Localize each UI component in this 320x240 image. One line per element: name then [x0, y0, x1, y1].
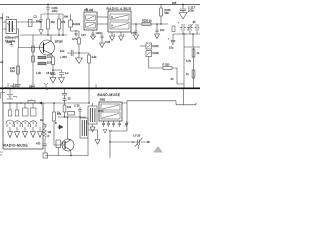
- wire col x18: [17, 48, 19, 85]
- capacitor C6 with ground: [100, 32, 105, 48]
- diode D1: [69, 20, 73, 27]
- resistor R16 zigzag: [44, 128, 47, 144]
- wire AGC long drop: [79, 53, 89, 55]
- wire U2 output bus: [131, 23, 168, 25]
- wire tuning bus y142: [110, 141, 150, 143]
- pointer arrow decoration: [153, 146, 163, 153]
- wire Q2 collector: [67, 117, 69, 139]
- resistor R11 on rail: [160, 5, 162, 9]
- node J13: [9, 102, 11, 104]
- wire base bus: [20, 34, 67, 36]
- wire col x64.5 from rail: [64, 89, 66, 93]
- wire col x193.5 down: [193, 47, 195, 89]
- wire branch to C32: [53, 70, 62, 72]
- node J24: [40, 21, 42, 23]
- tuner column 3: [22, 103, 30, 138]
- capacitor C4: [75, 30, 78, 37]
- node J17: [79, 116, 81, 118]
- node J1 on rail: [47, 4, 49, 6]
- resistor R13: [192, 49, 195, 57]
- capacitor C5 with ground: [91, 30, 96, 40]
- tuner column 4: [30, 103, 38, 138]
- transformer T1 (IF can): [3, 20, 17, 34]
- wire D1 to col: [71, 27, 80, 38]
- capacitor C20 below U3: [112, 121, 115, 127]
- trimmer capacitor C21: [135, 138, 143, 148]
- capacitor C23 below U3: [118, 121, 121, 127]
- IC switch box U1: [84, 12, 97, 30]
- arrow AGC pointer: [39, 30, 43, 35]
- wire R15 to col: [172, 68, 184, 84]
- wire lower bus y103: [3, 102, 89, 104]
- resistor R7: [52, 57, 55, 65]
- capacitor C7 with ground: [134, 24, 139, 40]
- mark M2 bottom left: [0, 152, 3, 155]
- node J10: [183, 33, 185, 35]
- capacitor C32: [59, 73, 64, 78]
- node J6: [135, 23, 137, 25]
- connector Y1 above rail: [44, 83, 48, 89]
- wire T3 top stub: [83, 117, 85, 118]
- capacitor C35: [63, 99, 67, 103]
- connector arrow A1: [38, 102, 42, 105]
- trimmer capacitor C12: [187, 24, 194, 32]
- node J14: [20, 102, 22, 104]
- capacitor C1: [40, 14, 43, 30]
- node J9 rail: [182, 4, 184, 6]
- resistor R18 on col x64.5: [64, 103, 66, 105]
- wire band loop outer: [122, 89, 196, 131]
- capacitor C34: [62, 93, 67, 98]
- wire T3 tap: [88, 130, 98, 140]
- wire T2 top stub: [92, 103, 94, 106]
- capacitor C30 electrolytic to rail: [16, 84, 21, 89]
- bracket mark: [7, 83, 9, 88]
- node J19: [70, 155, 72, 157]
- capacitor C19 below U3: [107, 121, 110, 127]
- tuner column 2: [14, 103, 22, 138]
- wire C21 stub: [138, 145, 140, 149]
- resistor R5: [32, 56, 35, 62]
- wire U1 to U2 pin1: [97, 16, 108, 18]
- ground G3 below U2: [110, 32, 115, 41]
- wire R1 bottom: [48, 14, 63, 35]
- resistor R17 on col x54: [53, 103, 55, 112]
- wire left border bus: [2, 13, 4, 103]
- wire T3 bottom to emitter bus: [87, 138, 89, 156]
- component K4: [56, 140, 61, 148]
- resistor R9: [88, 55, 91, 63]
- resistor R3: [17, 66, 20, 74]
- node J12: [46, 88, 48, 90]
- wire col x45: [43, 124, 45, 128]
- ground G2: [76, 53, 83, 64]
- switch box U3 BAND-MUSE: [99, 102, 122, 121]
- resistor R1: [47, 19, 50, 29]
- inductor L2: [38, 62, 46, 65]
- node J18: [67, 116, 69, 118]
- box RADIO-MUSE: [3, 103, 43, 149]
- diode D4: [57, 125, 63, 129]
- capacitor C31 to rail: [31, 85, 35, 89]
- node J5: [78, 52, 80, 54]
- svg-text:RADIO-MUSE: RADIO-MUSE: [4, 144, 29, 148]
- capacitor C14 on rail: [10, 84, 18, 90]
- ground G10: [59, 78, 65, 84]
- capacitor C22 below rail left: [7, 89, 16, 99]
- node J23: [52, 69, 54, 71]
- diode D3: [146, 51, 152, 57]
- ground G8: [103, 130, 107, 134]
- svg-text:BAND-MUSE: BAND-MUSE: [98, 93, 121, 97]
- node J4: [62, 34, 64, 36]
- capacitor C13: [171, 34, 175, 45]
- capacitor C25: [195, 24, 200, 31]
- node J22: [132, 141, 134, 143]
- wire cluster top bus: [42, 13, 63, 15]
- wire col x53 emitter: [52, 56, 54, 57]
- thick ground rail: [0, 87, 200, 89]
- oscillator coil T3: [80, 118, 88, 138]
- component K1 on bus: [28, 101, 35, 104]
- capacitor C33: [51, 70, 56, 78]
- resistor R2: [58, 19, 61, 29]
- component K5 in series: [29, 20, 33, 27]
- trimmer capacitor C24 below U3: [125, 121, 129, 127]
- switch box U2 RADIO-4-BUS: [108, 11, 131, 32]
- resistor R19: [172, 26, 175, 32]
- wire band loop to tuning: [110, 131, 127, 158]
- node J15: [53, 102, 55, 104]
- wire rail drop with capacitor C201: [46, 5, 49, 15]
- node J20: [88, 102, 90, 104]
- wire top supply rail: [0, 4, 200, 6]
- wire Q2 emitter: [45, 153, 89, 156]
- oscillator coil T2: [88, 106, 97, 124]
- wire K4: [57, 148, 59, 156]
- capacitor C2 top: [70, 14, 72, 20]
- wire col x184 down: [183, 47, 185, 89]
- wire R8 down: [78, 44, 80, 53]
- capacitor C9 with ground: [155, 24, 160, 39]
- wire R7 down: [52, 65, 54, 71]
- transistor Q1: [40, 35, 55, 56]
- capacitor C16: [43, 144, 47, 153]
- ground G7: [95, 140, 100, 145]
- component K3: [68, 112, 75, 116]
- node J11: [192, 33, 194, 35]
- wire T1 secondary to cluster: [17, 21, 41, 23]
- ground G6: [90, 124, 95, 132]
- transistor Q2: [62, 139, 74, 153]
- wire Q1 base: [18, 47, 44, 49]
- inductor L1: [38, 56, 46, 59]
- wire y47 bus: [184, 34, 200, 47]
- node J16: [64, 116, 66, 118]
- ground G4 below U2: [119, 32, 124, 41]
- wire diode feed: [140, 45, 146, 47]
- resistor R15: [163, 67, 172, 70]
- capacitor C18 below U3: [102, 121, 105, 127]
- wire T1 lower tap: [17, 29, 19, 48]
- node J3: [58, 34, 60, 36]
- capacitor C3: [67, 50, 79, 56]
- wire diode to R15: [149, 57, 163, 69]
- diode D2: [146, 43, 152, 49]
- component K2: [43, 153, 48, 158]
- wire U1 to U2 pin2: [97, 23, 108, 25]
- node J21: [109, 141, 111, 143]
- svg-text:. .: . .: [30, 98, 32, 101]
- tuner column 1: [6, 103, 14, 138]
- resistor R8: [78, 38, 81, 44]
- corner mark bottom-left: [1, 93, 5, 99]
- arrowhead tuning bus: [148, 141, 151, 143]
- ground G11 below T1: [10, 42, 13, 46]
- resistor R14: [192, 70, 195, 78]
- capacitor C11: [180, 24, 186, 31]
- capacitor C10 with ground: [180, 5, 186, 13]
- svg-text:RADIO-4-BUS: RADIO-4-BUS: [107, 7, 132, 11]
- wire col x89 to lower section: [88, 63, 90, 103]
- wire osc bus y117: [58, 116, 86, 118]
- ground G9: [50, 78, 56, 84]
- wire col x33: [32, 35, 34, 85]
- capacitor C17: [78, 107, 82, 117]
- tick mark right: [95, 84, 97, 88]
- node J7: [156, 23, 158, 25]
- wire y34 bus: [173, 31, 200, 34]
- resistor R4: [32, 46, 35, 52]
- ground G5 wide: [39, 127, 41, 132]
- node J2: [47, 34, 49, 36]
- node J8: [160, 23, 162, 25]
- resistor R10: [142, 23, 151, 26]
